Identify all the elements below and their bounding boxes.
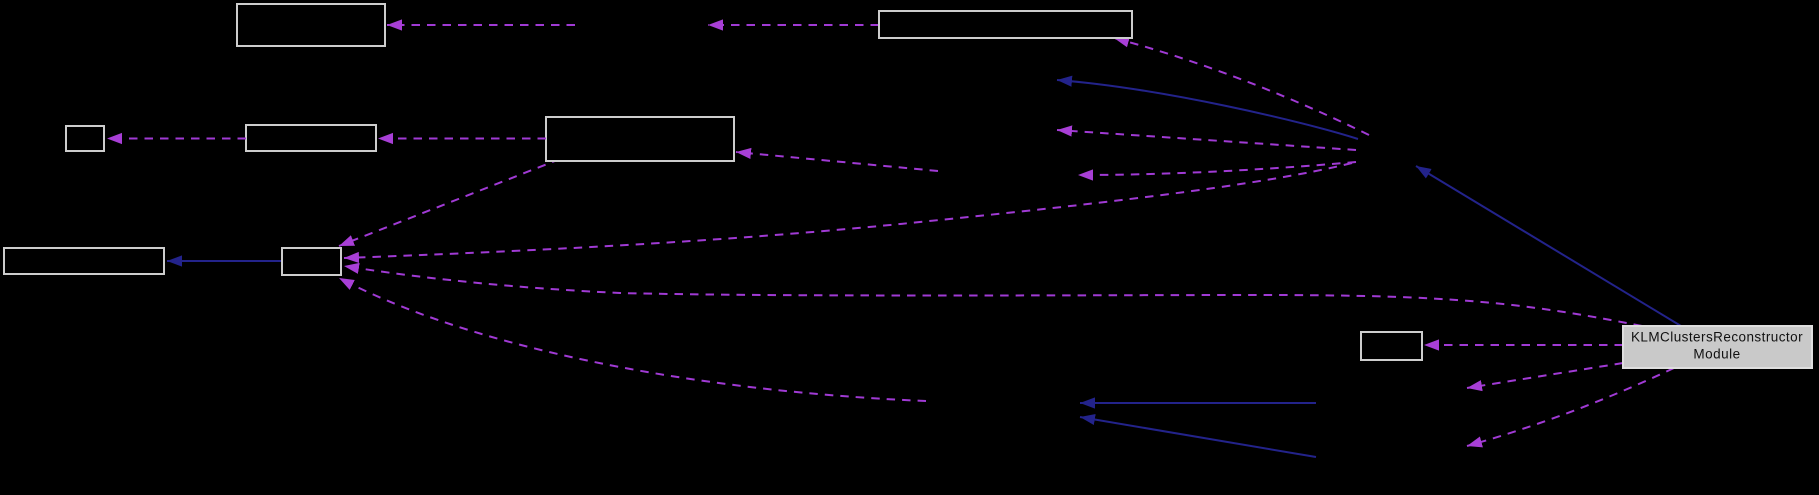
wire: dashed edge from hidden node to node A <box>387 24 575 26</box>
wire: dashed edge from node E to node F <box>339 159 560 246</box>
node I <box>1361 332 1422 360</box>
wire: dashed edge from node E to node D <box>378 138 546 140</box>
wire: long dashed edge from KLM node to node F <box>344 266 1642 326</box>
node E <box>546 117 734 161</box>
node C <box>66 126 104 151</box>
wire: dashed edge from hidden node N to node E <box>736 152 938 171</box>
node G <box>4 248 164 274</box>
node A <box>237 4 385 46</box>
wire: blue inheritance edge from KLM node to hub node <box>1416 166 1681 326</box>
wire: blue inheritance edge from hidden node S to hidden node H <box>1080 417 1316 457</box>
svg-text:KLMClustersReconstructor: KLMClustersReconstructor <box>1631 330 1803 345</box>
wire: dashed edge from KLM node to hidden node S <box>1467 368 1674 446</box>
wire: dashed edge from KLM node to node I <box>1424 344 1623 346</box>
wire: dashed edge from hub node to node B bottom-right <box>1114 38 1369 135</box>
svg-text:Module: Module <box>1693 347 1740 362</box>
wire: blue inheritance edge from hidden node R to hidden node H <box>1080 402 1316 404</box>
wire: dashed edge from hub node to hidden node N <box>1078 162 1356 175</box>
wire: blue inheritance edge from node F to node G <box>167 260 282 262</box>
wire: dashed edge from hub node to hidden node O <box>1057 130 1356 150</box>
node B <box>879 11 1132 38</box>
wire: blue inheritance edge from hub node to hidden node P <box>1057 80 1358 139</box>
wire: dashed edge from node D to node C <box>107 138 246 140</box>
node KLMClustersReconstructorModule <box>1623 326 1812 368</box>
node F <box>282 248 341 275</box>
node D <box>246 125 376 151</box>
wire: dashed edge from hidden node H to node F <box>339 278 926 401</box>
wire: dashed edge from KLM node to hidden node R <box>1467 363 1623 388</box>
wire: long dashed edge from hub node to node F <box>344 163 1352 258</box>
wire: dashed edge from node B to hidden node <box>708 24 879 26</box>
